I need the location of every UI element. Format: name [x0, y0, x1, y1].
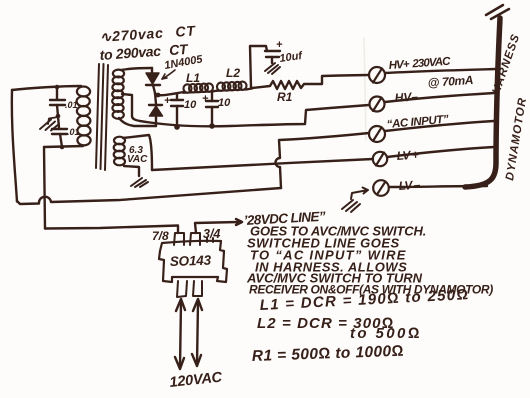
label + 10 (C2): [202, 93, 231, 109]
wire L2 to R1 node: [246, 89, 252, 90]
label + 10uf (C3): [276, 39, 304, 65]
wire LV- to ground: [351, 188, 368, 200]
svg-text:10: 10: [184, 99, 197, 111]
junction rectifier output: [156, 93, 161, 98]
transformer T1 HV secondary winding: [112, 70, 124, 119]
transformer core: [96, 64, 108, 170]
svg-text:HV–: HV–: [394, 89, 419, 105]
connector bottom pin A: [177, 281, 187, 297]
connector pin 7/8: [174, 233, 184, 245]
svg-text:VAC: VAC: [127, 154, 148, 165]
label 1N4005 with arrow: [162, 53, 204, 79]
arrow 120VAC line B: [192, 299, 202, 366]
wire AC INPUT to harness: [385, 121, 494, 131]
wire bus to SO143 pin 7/8: [45, 226, 178, 234]
wire primary top: [12, 86, 81, 90]
svg-text:R1: R1: [277, 90, 293, 104]
junction C2 bottom: [209, 123, 215, 129]
ground LV-: [342, 200, 360, 212]
wire L1 to L2: [212, 91, 218, 92]
label + 10 (C1): [164, 95, 197, 111]
svg-text:10: 10: [218, 97, 231, 109]
ground 6.3 winding: [131, 178, 148, 187]
capacitor C3 10uF: [265, 51, 280, 63]
inductor L1: [183, 83, 213, 92]
transformer T1 primary winding: [77, 87, 91, 146]
connector pin 3/4: [190, 233, 200, 245]
terminal LV-: [373, 180, 389, 196]
wire bottom HV rail: [140, 105, 369, 126]
wire secondary top: [121, 68, 152, 70]
junction line filter mid: [56, 114, 61, 119]
wire AC line long (left to AC INPUT) with hop: [17, 188, 281, 204]
inductor L2: [217, 82, 247, 91]
svg-text:SO143: SO143: [170, 253, 212, 269]
wire node up to C3: [250, 46, 267, 88]
wire 6.3 winding to LV+: [152, 159, 373, 170]
connector SO143 body: [159, 241, 227, 282]
diode D1 1N4005: [146, 68, 160, 93]
wire left outer vertical: [12, 90, 17, 202]
svg-text:7/8: 7/8: [152, 229, 169, 243]
junction primary top: [55, 85, 60, 90]
capacitor C2 10uF: [206, 92, 218, 126]
note 28VDC line text block: [243, 209, 493, 297]
label 6.3 VAC: [127, 145, 148, 165]
wire primary bottom: [44, 146, 83, 147]
terminal HV-: [370, 97, 385, 112]
svg-text:L2: L2: [226, 66, 240, 80]
ground line filter: [40, 117, 59, 131]
connector bottom pin B: [193, 281, 202, 296]
svg-text:DYNAMOTOR: DYNAMOTOR: [504, 96, 529, 181]
svg-text:+: +: [202, 93, 209, 105]
arrow 120VAC line A: [175, 299, 185, 369]
transformer T1 6.3VAC winding: [114, 137, 125, 166]
svg-text:to 500Ω: to 500Ω: [350, 325, 422, 342]
junction primary bottom: [60, 145, 65, 150]
diode D2 1N4005: [149, 93, 163, 126]
wire secondary CT: [122, 94, 146, 122]
junction C1 bottom: [174, 124, 180, 130]
ground C3: [265, 63, 280, 74]
svg-text:HARNESS: HARNESS: [490, 32, 522, 96]
dynamotor harness: [465, 5, 509, 187]
capacitor C1 10uF: [171, 94, 183, 127]
terminal AC INPUT: [369, 126, 385, 142]
paper crease: [364, 38, 366, 140]
capacitor C-line2 .01: [52, 116, 67, 147]
svg-text:3/4: 3/4: [203, 227, 220, 241]
wire rectifier output to L1: [156, 92, 184, 95]
svg-text:+: +: [276, 39, 283, 51]
svg-text:10uf: 10uf: [279, 50, 304, 65]
svg-text:L1: L1: [186, 71, 200, 85]
capacitor C-line1 .01: [50, 87, 65, 116]
wire secondary bottom: [119, 118, 156, 126]
wire LV+ to harness: [387, 147, 494, 157]
wire SO143 pin 3/4 to 28VDC arrow: [195, 219, 242, 233]
wire AC INPUT left leg with hop: [276, 133, 370, 188]
svg-text:@ 70mA: @ 70mA: [427, 73, 473, 90]
svg-text:LV –: LV –: [398, 177, 421, 193]
svg-text:+: +: [164, 95, 171, 107]
svg-text:120VAC: 120VAC: [169, 369, 224, 390]
wire 6.3 winding bottom: [124, 166, 139, 176]
terminal LV+: [373, 152, 387, 166]
terminal HV+: [369, 67, 385, 83]
wire HV+ to harness: [385, 69, 496, 73]
label 270vac CT: [99, 22, 197, 63]
wire HV- to harness: [385, 93, 494, 102]
wire to SO143 pin (left vertical): [44, 147, 45, 229]
svg-text:R1 = 500Ω to 1000Ω: R1 = 500Ω to 1000Ω: [252, 343, 405, 365]
resistor R1: [252, 75, 368, 89]
wire LV- right to harness: [389, 186, 487, 187]
wire 6.3 winding top: [123, 135, 152, 170]
